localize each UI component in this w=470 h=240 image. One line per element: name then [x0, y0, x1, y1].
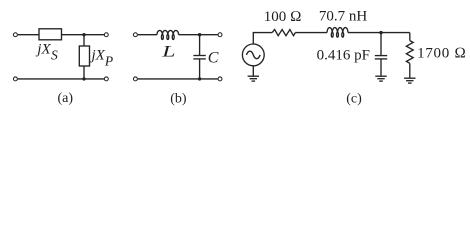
- capacitor C1 plate bottom: [375, 58, 387, 60]
- wire shunt lower (a): [83, 66, 85, 79]
- inductor L humps: [157, 30, 179, 34]
- wire top rail left (a): [18, 34, 39, 36]
- wire corner down to R2: [409, 33, 411, 41]
- inductor L1 loop 1: [331, 32, 333, 37]
- svg-text:(b): (b): [170, 91, 187, 106]
- resistor R2 1700ohm zigzag: [406, 41, 413, 64]
- wire left of inductor (b): [138, 34, 157, 36]
- node junction top (b): [198, 33, 201, 36]
- capacitor C plate bottom: [193, 58, 205, 60]
- terminal bottom-left (a): [13, 77, 17, 81]
- svg-text:L: L: [161, 44, 176, 61]
- wire L1 to corner: [348, 32, 410, 34]
- wire R2 to ground: [409, 63, 411, 78]
- capacitor C1 plate top: [375, 55, 387, 57]
- wire cap C1 upper: [380, 33, 382, 56]
- inductor L1 loop 2: [337, 32, 339, 37]
- svg-text:1700 Ω: 1700 Ω: [417, 45, 466, 61]
- terminal bottom-left (b): [133, 77, 137, 81]
- ground under R2: [404, 78, 415, 83]
- resistor box jXS: [39, 29, 62, 40]
- ground under source: [248, 76, 259, 81]
- svg-text:(c): (c): [346, 91, 362, 106]
- wire cap upper (b): [199, 35, 201, 56]
- resistor R1 100ohm zigzag: [272, 30, 295, 36]
- wire right of inductor (b): [179, 34, 218, 36]
- svg-text:(a): (a): [58, 91, 74, 106]
- terminal bottom-right (a): [104, 77, 108, 81]
- node junction bottom (a): [82, 77, 85, 80]
- terminal bottom-right (b): [218, 77, 222, 81]
- inductor L loop 3: [172, 35, 174, 40]
- inductor L1 loop 3: [342, 32, 344, 37]
- wire bottom rail (b): [138, 78, 218, 80]
- inductor L loop 1: [161, 35, 163, 40]
- terminal top-right (b): [218, 33, 222, 37]
- wire bottom rail (a): [18, 78, 104, 80]
- svg-text:70.7 nH: 70.7 nH: [319, 8, 368, 24]
- svg-text:C: C: [208, 50, 219, 67]
- wire source to ground: [252, 66, 254, 76]
- wire shunt upper (a): [83, 35, 85, 46]
- terminal top-left (b): [133, 33, 137, 37]
- capacitor C plate top: [193, 55, 205, 57]
- terminal top-left (a): [13, 33, 17, 37]
- node junction top (c): [379, 31, 382, 34]
- ground under C1: [375, 76, 386, 81]
- svg-text:100 Ω: 100 Ω: [264, 9, 302, 25]
- source V1 circle: [242, 44, 264, 66]
- inductor L loop 2: [167, 35, 169, 40]
- wire top rail right (a): [62, 34, 105, 36]
- node junction top (a): [82, 33, 85, 36]
- resistor box jXP: [79, 46, 89, 66]
- svg-text:jXS: jXS: [35, 42, 58, 63]
- inductor L1 humps: [327, 28, 348, 33]
- source V1 sine: [246, 51, 260, 59]
- wire cap C1 lower: [380, 59, 382, 76]
- svg-text:jXP: jXP: [90, 48, 114, 69]
- svg-text:0.416 pF: 0.416 pF: [317, 47, 370, 63]
- wire source to top rail: [253, 33, 272, 44]
- wire cap lower (b): [199, 59, 201, 79]
- wire R1 to L1: [295, 32, 327, 34]
- node junction bottom (b): [198, 77, 201, 80]
- terminal top-right (a): [104, 33, 108, 37]
